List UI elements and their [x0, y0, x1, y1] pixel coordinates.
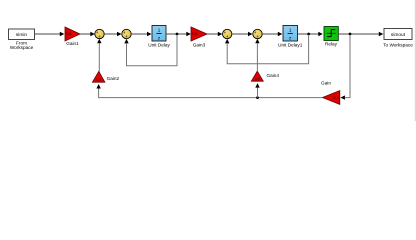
wire From Workspace to Gain1 [35, 32, 65, 37]
wire feedback line up to Gain4 input [255, 83, 259, 98]
svg-text:1: 1 [289, 28, 292, 33]
wire Relay junction down to Gain input [340, 35, 350, 100]
wire Gain4 output to Sum4 [255, 39, 259, 71]
svg-text:0.5: 0.5 [255, 77, 260, 81]
wire Relay to To Workspace [338, 32, 383, 37]
svg-text:To Workspace: To Workspace [383, 42, 413, 47]
svg-text:Gain4: Gain4 [267, 73, 280, 78]
svg-text:0.6: 0.6 [66, 32, 71, 36]
gain Gain3 [191, 27, 207, 48]
wire Unit Delay to Gain3 [166, 32, 191, 37]
wire Gain3 to Sum3 [207, 32, 222, 37]
junction node on feedback line under Gain4 [256, 96, 259, 99]
svg-text:Gain: Gain [321, 81, 331, 86]
sum Sum1 [95, 29, 104, 40]
svg-text:1: 1 [158, 28, 161, 33]
gain Gain4 [251, 71, 279, 81]
wire Sum1 to Sum2 [104, 32, 121, 37]
junction node after Relay [349, 33, 352, 36]
svg-text:Gain2: Gain2 [107, 76, 120, 81]
svg-text:Relay: Relay [325, 42, 338, 47]
svg-text:simout: simout [391, 32, 406, 38]
svg-text:Workspace: Workspace [10, 45, 34, 50]
sum Sum2 [122, 29, 131, 40]
unit delay block Unit Delay [148, 26, 170, 48]
svg-text:-0.5: -0.5 [332, 96, 338, 100]
window edge line (right border) [415, 0, 416, 121]
svg-text:0.5: 0.5 [97, 78, 102, 82]
wire Unit Delay1 to Relay [298, 32, 323, 37]
from workspace block (simin) [9, 29, 35, 50]
svg-text:Gain3: Gain3 [193, 43, 206, 48]
wire Gain2 output to Sum1 [97, 39, 101, 72]
unit delay block Unit Delay1 [278, 26, 303, 48]
svg-text:0.6: 0.6 [192, 32, 197, 36]
wire Sum2 to Unit Delay [131, 32, 151, 37]
wire Gain1 to Sum1 [80, 32, 95, 37]
svg-text:simin: simin [16, 32, 28, 38]
wire feedback loop B from junction to Sum3 [225, 35, 309, 64]
junction node after Unit Delay [176, 33, 179, 36]
wire feedback loop A from junction to Sum2 [124, 35, 177, 66]
svg-text:Unit Delay1: Unit Delay1 [278, 43, 303, 48]
gain Gain1 [65, 27, 80, 46]
svg-text:Unit Delay: Unit Delay [148, 43, 170, 48]
wire Sum4 to Unit Delay1 [262, 32, 282, 37]
sum Sum4 [253, 29, 262, 40]
relay block Relay [324, 27, 338, 47]
wire Sum3 to Sum4 [232, 32, 253, 37]
to workspace block (simout) [383, 29, 413, 48]
junction node after Unit Delay1 [307, 33, 310, 36]
gain Gain (bottom right, flipped) [321, 81, 340, 105]
gain Gain2 [92, 71, 119, 82]
svg-text:Gain1: Gain1 [66, 41, 79, 46]
wire Gain output feedback line to Gain2 input [96, 84, 322, 98]
sum Sum3 [223, 29, 232, 40]
